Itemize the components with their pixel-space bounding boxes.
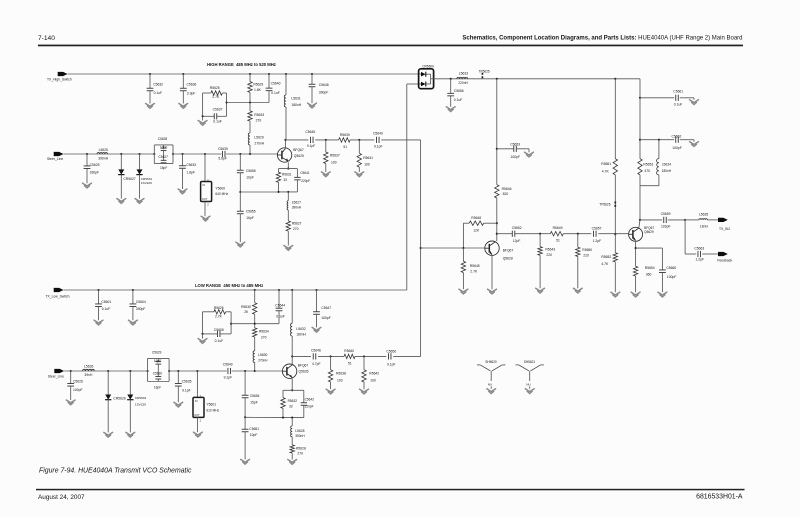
- svg-text:39nH: 39nH: [84, 373, 93, 377]
- wire C5651 node to low emitter network: [245, 416, 283, 418]
- transistor Q5629 BFQ67: [629, 227, 643, 241]
- svg-text:C5642: C5642: [305, 398, 315, 402]
- emitter network R5631 C5641 (high): [287, 162, 289, 168]
- capacitor C5648: [311, 73, 313, 75]
- capacitor C5601: [97, 289, 99, 291]
- svg-text:C5654: C5654: [250, 394, 260, 398]
- svg-text:390nH: 390nH: [292, 206, 302, 210]
- output TX_INJ: [718, 218, 728, 222]
- svg-text:9.1pF: 9.1pF: [387, 362, 396, 366]
- svg-text:TP5625: TP5625: [479, 69, 490, 73]
- resistor R5654: [633, 266, 637, 276]
- svg-text:1.8K: 1.8K: [254, 88, 262, 92]
- svg-text:610 MHz: 610 MHz: [206, 409, 219, 413]
- svg-text:100: 100: [364, 163, 370, 167]
- svg-text:C5655: C5655: [246, 210, 256, 214]
- svg-text:0.1uF: 0.1uF: [213, 120, 222, 124]
- inductor L5635 series: [684, 219, 686, 221]
- capacitor C5635: [177, 370, 179, 372]
- svg-text:16pF: 16pF: [246, 216, 254, 220]
- wire steer line high: [64, 153, 155, 155]
- svg-text:C5601: C5601: [101, 300, 111, 304]
- svg-text:C5637: C5637: [213, 107, 223, 111]
- varactor CR5628: [107, 370, 109, 372]
- svg-text:R5633: R5633: [254, 113, 264, 117]
- svg-text:9.1pF: 9.1pF: [307, 144, 316, 148]
- svg-text:C5650: C5650: [386, 350, 396, 354]
- svg-text:C5641: C5641: [300, 171, 310, 175]
- svg-text:C5626: C5626: [73, 379, 83, 383]
- svg-text:Q5626: Q5626: [299, 369, 309, 373]
- svg-text:C5648: C5648: [319, 83, 329, 87]
- junction L5629 to steer rail: [249, 153, 251, 155]
- svg-text:R5631: R5631: [282, 173, 292, 177]
- svg-text:270: 270: [297, 452, 303, 456]
- wire TX_High rail: [68, 73, 422, 75]
- svg-text:51: 51: [343, 145, 347, 149]
- resistor R5651: [613, 159, 617, 175]
- svg-text:L5633: L5633: [459, 72, 468, 76]
- svg-text:220pF: 220pF: [305, 405, 314, 409]
- inductor L5630: [253, 351, 255, 363]
- svg-text:C5644: C5644: [275, 303, 285, 307]
- svg-text:16pF: 16pF: [154, 385, 161, 389]
- svg-text:L5631: L5631: [291, 96, 300, 100]
- svg-text:9.1pF: 9.1pF: [374, 145, 383, 149]
- svg-text:180nH: 180nH: [662, 169, 672, 173]
- svg-text:2.7K: 2.7K: [470, 270, 478, 274]
- footer rule: [36, 489, 745, 491]
- svg-text:R5629: R5629: [253, 82, 263, 86]
- capacitor C5632: [149, 73, 151, 75]
- svg-text:C5627: C5627: [159, 155, 169, 159]
- svg-text:Y5600: Y5600: [215, 186, 225, 190]
- resistor R5639 series: [339, 138, 351, 142]
- svg-text:C5649: C5649: [373, 131, 383, 135]
- capacitor C5655: [239, 191, 241, 193]
- wire TX_Low vertical to CR5600: [406, 84, 408, 290]
- resistor R5648: [496, 222, 498, 224]
- svg-text:390nH: 390nH: [98, 157, 108, 161]
- svg-text:220nH: 220nH: [458, 81, 468, 85]
- resistor R5646: [495, 185, 499, 198]
- svg-text:Q5628: Q5628: [503, 256, 513, 260]
- svg-text:R5643: R5643: [545, 248, 555, 252]
- capacitor C5653: [496, 148, 498, 150]
- capacitor C5633: [181, 153, 183, 155]
- output Feedback: [718, 252, 728, 256]
- resistor R5626 with capacitor C5608 loop: [202, 312, 204, 334]
- svg-text:C5625: C5625: [90, 163, 100, 167]
- svg-text:C5632: C5632: [153, 82, 163, 86]
- svg-text:16pF: 16pF: [154, 359, 161, 363]
- svg-text:R5649: R5649: [553, 226, 563, 230]
- capacitor C5658: [239, 153, 241, 155]
- resistor R5630: [254, 289, 256, 291]
- svg-text:6816533H01-A: 6816533H01-A: [696, 494, 743, 501]
- svg-text:OUT: OUT: [202, 198, 208, 201]
- wire emitter Q5629: [635, 241, 637, 266]
- svg-text:470: 470: [644, 169, 650, 173]
- inductor L5625: [97, 152, 108, 154]
- svg-text:51: 51: [348, 362, 352, 366]
- svg-text:C5604: C5604: [136, 300, 146, 304]
- svg-text:CR5600: CR5600: [422, 64, 434, 68]
- svg-text:C5646: C5646: [311, 348, 321, 352]
- svg-text:L5625: L5625: [99, 148, 108, 152]
- capacitor C5626: [70, 370, 72, 372]
- svg-text:CR5627: CR5627: [123, 177, 135, 181]
- resistor R5650: [577, 233, 579, 235]
- svg-text:R5632: R5632: [288, 399, 298, 403]
- svg-text:Q5625: Q5625: [294, 154, 304, 158]
- svg-text:9.1pF: 9.1pF: [182, 388, 191, 392]
- svg-text:R5626: R5626: [214, 306, 224, 310]
- resistor R5653: [638, 159, 642, 175]
- test point TP5626: [614, 202, 616, 208]
- capacitor C5625: [86, 153, 88, 155]
- svg-text:R5627: R5627: [292, 221, 302, 225]
- wire buffer branch vertical: [496, 78, 498, 80]
- svg-text:C5640: C5640: [223, 363, 233, 367]
- svg-text:C5647: C5647: [321, 306, 331, 310]
- resistor R5642: [363, 355, 365, 357]
- capacitor C5644: [278, 289, 280, 291]
- capacitor C5604: [132, 289, 134, 291]
- varactor CR5631: [138, 153, 140, 155]
- svg-text:Schematics, Component Location: Schematics, Component Location Diagrams,…: [462, 36, 742, 42]
- resistor R5629: [249, 73, 251, 75]
- svg-text:100pF: 100pF: [321, 316, 330, 320]
- wire collector Q5625: [284, 140, 286, 149]
- svg-text:4.7K: 4.7K: [602, 169, 610, 173]
- svg-text:BFQ67: BFQ67: [293, 148, 304, 152]
- capacitor C5659: [639, 219, 641, 221]
- inductor L5629: [248, 133, 250, 145]
- capacitor C5629 / capacitor C5630 parallel pair: [147, 370, 149, 372]
- svg-text:R5639: R5639: [340, 133, 350, 137]
- svg-text:C5645: C5645: [305, 130, 315, 134]
- capacitor C5660: [661, 248, 663, 270]
- inductor L5634: [658, 139, 660, 141]
- resistor R5649 series: [550, 232, 563, 236]
- svg-text:R5651: R5651: [601, 162, 611, 166]
- svg-text:IN: IN: [195, 400, 198, 403]
- junction L5630 to steer rail: [254, 370, 256, 372]
- resistor R5640 series: [344, 354, 355, 358]
- svg-text:C5663: C5663: [694, 247, 704, 251]
- svg-text:1.2pF: 1.2pF: [696, 258, 705, 262]
- svg-text:R5634: R5634: [259, 330, 269, 334]
- inductor L5633 series: [457, 77, 468, 79]
- svg-text:51: 51: [556, 239, 560, 243]
- svg-text:12K: 12K: [473, 229, 480, 233]
- capacitor C5628 / capacitor C5627 parallel pair: [153, 153, 155, 155]
- svg-text:R5642: R5642: [369, 372, 379, 376]
- capacitor C5661: [639, 97, 641, 99]
- svg-text:C5639: C5639: [218, 147, 228, 151]
- svg-text:390pF: 390pF: [319, 90, 328, 94]
- inductor L5628: [291, 418, 293, 426]
- svg-text:NU: NU: [488, 382, 492, 386]
- svg-text:C5658: C5658: [246, 169, 256, 173]
- svg-text:C5657: C5657: [592, 226, 602, 230]
- capacitor C5640 low series: [227, 368, 229, 374]
- resistor R5633: [249, 101, 251, 103]
- svg-text:360: 360: [646, 273, 652, 277]
- inductor L5632: [291, 289, 293, 291]
- wire right supply branch: [614, 78, 616, 80]
- header rule: [38, 45, 743, 47]
- svg-text:1.2pF: 1.2pF: [593, 239, 602, 243]
- svg-text:TX_INJ: TX_INJ: [719, 227, 730, 231]
- svg-text:4.7K: 4.7K: [601, 262, 609, 266]
- svg-text:C5608: C5608: [214, 328, 224, 332]
- emitter network R5632 C5642 (low): [291, 379, 293, 391]
- resonator Y5600: [204, 153, 206, 155]
- capacitor C5663: [684, 220, 686, 254]
- svg-text:August 24, 2007: August 24, 2007: [38, 494, 85, 501]
- resonator Y5601: [196, 370, 198, 372]
- svg-text:0.1uF: 0.1uF: [454, 98, 463, 102]
- svg-text:L5628: L5628: [295, 429, 304, 433]
- svg-text:R5637: R5637: [330, 154, 340, 158]
- wire steer line low: [64, 370, 148, 372]
- resistor R5638: [330, 355, 332, 357]
- resistor R5641: [358, 139, 360, 141]
- svg-text:L5627: L5627: [292, 201, 301, 205]
- wire high-range output rail: [284, 139, 286, 141]
- wire base rail Q5629: [614, 233, 616, 235]
- capacitor C5656: [450, 78, 452, 80]
- wire low-range output rail: [291, 355, 293, 357]
- svg-text:C5630: C5630: [153, 372, 163, 376]
- svg-text:100pF: 100pF: [511, 155, 520, 159]
- svg-text:330pF: 330pF: [90, 170, 99, 174]
- svg-text:SH5621: SH5621: [524, 360, 536, 364]
- svg-text:IN: IN: [203, 184, 206, 187]
- svg-text:R5654: R5654: [645, 266, 655, 270]
- svg-text:12pF: 12pF: [513, 239, 521, 243]
- svg-text:100: 100: [370, 378, 376, 382]
- transistor Q5626 BFQ67: [282, 364, 296, 378]
- svg-text:R5641: R5641: [363, 156, 373, 160]
- svg-text:640 MHz: 640 MHz: [215, 192, 228, 196]
- wire high output to buffer base: [420, 140, 422, 248]
- resistor R5652: [614, 234, 616, 252]
- capacitor C5651: [244, 416, 246, 418]
- svg-text:2.7K: 2.7K: [212, 95, 220, 99]
- svg-text:180nH: 180nH: [296, 333, 306, 337]
- svg-text:2.7K: 2.7K: [215, 315, 223, 319]
- svg-text:L5632: L5632: [296, 327, 305, 331]
- svg-text:100: 100: [331, 160, 337, 164]
- svg-text:C5659: C5659: [661, 212, 671, 216]
- inductor L5631: [285, 73, 287, 75]
- capacitor C5649 series: [376, 137, 378, 143]
- resistor R5627: [286, 221, 290, 231]
- svg-text:L5635: L5635: [699, 213, 708, 217]
- svg-text:220: 220: [546, 253, 552, 257]
- svg-text:L5634: L5634: [662, 162, 671, 166]
- inductor L5627: [287, 192, 289, 201]
- svg-text:SH5620: SH5620: [485, 360, 497, 364]
- svg-text:0.1uF: 0.1uF: [154, 91, 163, 95]
- svg-text:270: 270: [293, 227, 299, 231]
- input Steer_Line (low): [54, 369, 64, 373]
- svg-text:0.1uF: 0.1uF: [215, 339, 224, 343]
- svg-text:270: 270: [256, 119, 262, 123]
- svg-text:10pF: 10pF: [246, 176, 254, 180]
- svg-text:R5653: R5653: [643, 162, 653, 166]
- svg-text:270nH: 270nH: [258, 358, 268, 362]
- svg-text:C5635: C5635: [182, 380, 192, 384]
- varactor CR5627: [120, 153, 122, 155]
- svg-text:C5661: C5661: [673, 89, 683, 93]
- svg-text:BFQ67: BFQ67: [298, 363, 309, 367]
- wire R5626 loop to low bias node: [231, 323, 279, 325]
- capacitor C5654: [244, 370, 246, 372]
- svg-text:100: 100: [337, 378, 343, 382]
- svg-text:CR5628: CR5628: [113, 396, 125, 400]
- capacitor C5657 series: [593, 231, 595, 237]
- svg-text:NU: NU: [526, 382, 530, 386]
- wire interstage rail: [540, 233, 550, 235]
- svg-text:5.6pF: 5.6pF: [218, 156, 227, 160]
- diode pair CR5600: [419, 69, 434, 89]
- svg-text:15pF: 15pF: [250, 400, 258, 404]
- resistor R5637: [325, 139, 327, 141]
- wire base rail Q5628: [420, 247, 422, 249]
- svg-text:33: 33: [289, 405, 293, 409]
- svg-text:C5660: C5660: [666, 266, 676, 270]
- svg-text:390nH: 390nH: [295, 434, 305, 438]
- svg-text:R5640: R5640: [344, 349, 354, 353]
- svg-text:1SV229: 1SV229: [141, 181, 152, 185]
- svg-text:R5625: R5625: [210, 86, 220, 90]
- resistor R5625 with capacitor C5637 loop: [202, 93, 204, 116]
- svg-text:Feedback: Feedback: [717, 259, 732, 263]
- svg-text:C5628: C5628: [158, 137, 168, 141]
- svg-text:33: 33: [283, 178, 287, 182]
- svg-text:0.1uF: 0.1uF: [271, 91, 280, 95]
- svg-text:18nH: 18nH: [700, 225, 709, 229]
- svg-text:180nH: 180nH: [291, 103, 301, 107]
- svg-text:R5645: R5645: [470, 264, 480, 268]
- svg-text:C5652: C5652: [512, 226, 522, 230]
- inductor L5626: [83, 369, 95, 371]
- svg-text:100pF: 100pF: [73, 388, 82, 392]
- resistor R5634: [254, 323, 256, 325]
- svg-text:220: 220: [583, 253, 589, 257]
- test point TP5625: [481, 73, 483, 79]
- svg-text:R5628: R5628: [296, 446, 306, 450]
- svg-text:Steer_Line: Steer_Line: [48, 375, 64, 379]
- capacitor C5662: [639, 139, 641, 141]
- svg-text:LOW RANGE 450 MHz to 485 MHz: LOW RANGE 450 MHz to 485 MHz: [195, 283, 263, 288]
- svg-text:Q5629: Q5629: [644, 230, 654, 234]
- wire collector Q5629: [639, 220, 640, 228]
- svg-text:C5662: C5662: [672, 134, 682, 138]
- svg-text:4.7pF: 4.7pF: [312, 362, 321, 366]
- svg-text:OUT: OUT: [194, 414, 200, 417]
- svg-text:R5650: R5650: [582, 248, 592, 252]
- svg-text:1SV229: 1SV229: [135, 402, 146, 406]
- svg-text:100pF: 100pF: [667, 275, 676, 279]
- wire supply corner to collector loads: [639, 79, 641, 159]
- svg-text:R5648: R5648: [471, 216, 481, 220]
- svg-text:C5651: C5651: [249, 427, 259, 431]
- svg-text:R5646: R5646: [502, 187, 512, 191]
- svg-text:TX_Low_Switch: TX_Low_Switch: [46, 294, 70, 298]
- wire R5625 loop to bias node: [227, 102, 270, 104]
- svg-text:820: 820: [503, 192, 509, 196]
- svg-text:15pF: 15pF: [160, 166, 167, 170]
- input TX_High_Switch: [58, 72, 68, 76]
- svg-text:HIGH RANGE 485 MHz to 520 MHz: HIGH RANGE 485 MHz to 520 MHz: [207, 62, 276, 67]
- svg-text:0.1uF: 0.1uF: [674, 102, 683, 106]
- resistor R5645: [462, 247, 464, 249]
- svg-text:9.1pF: 9.1pF: [224, 375, 233, 379]
- wire mid supply rail: [434, 78, 640, 80]
- svg-text:10pF: 10pF: [160, 145, 167, 149]
- svg-text:100pF: 100pF: [672, 146, 681, 150]
- svg-text:C5656: C5656: [454, 89, 464, 93]
- resistor R5643: [539, 233, 541, 235]
- svg-text:C5653: C5653: [510, 143, 520, 147]
- svg-text:Steer_Line: Steer_Line: [47, 157, 63, 161]
- svg-text:R5630: R5630: [241, 305, 251, 309]
- svg-text:220pF: 220pF: [301, 179, 310, 183]
- resistor R5628: [290, 445, 294, 453]
- wire emitter Q5628 to ground: [491, 256, 493, 290]
- svg-text:BFQ67: BFQ67: [503, 249, 514, 253]
- capacitor C5645 series: [310, 137, 312, 143]
- capacitor C5646 series: [312, 353, 314, 359]
- varactor CR5632: [129, 370, 131, 372]
- wire C5655 node to emitter network: [240, 191, 278, 193]
- svg-text:TX_High_Switch: TX_High_Switch: [47, 77, 72, 81]
- svg-text:L5630: L5630: [258, 353, 267, 357]
- svg-text:7-140: 7-140: [38, 35, 55, 42]
- capacitor C5650 series: [387, 353, 389, 359]
- wire low output rises to buffer base: [420, 248, 422, 356]
- capacitor C5647: [315, 289, 317, 291]
- wire collector load join: [640, 185, 659, 187]
- input Steer_Line (high): [54, 152, 64, 156]
- svg-text:270nH: 270nH: [254, 141, 264, 145]
- svg-text:270: 270: [261, 335, 267, 339]
- svg-text:L5629: L5629: [254, 136, 263, 140]
- svg-text:C5633: C5633: [186, 163, 196, 167]
- transistor Q5625 BFQ67: [277, 148, 291, 162]
- svg-text:10pF: 10pF: [250, 433, 258, 437]
- transistor Q5628 BFQ67: [485, 241, 499, 255]
- svg-text:1.8pF: 1.8pF: [186, 171, 195, 175]
- svg-text:L5626: L5626: [84, 364, 93, 368]
- svg-text:C5640: C5640: [271, 81, 281, 85]
- svg-text:CR5632: CR5632: [135, 396, 147, 400]
- svg-text:Figure 7-94. HUE4040A Transmit: Figure 7-94. HUE4040A Transmit VCO Schem…: [39, 468, 192, 475]
- capacitor C5639 series: [222, 151, 224, 157]
- svg-text:R5652: R5652: [601, 255, 611, 259]
- input TX_Low_Switch: [54, 288, 64, 292]
- svg-text:0.1uF: 0.1uF: [102, 307, 111, 311]
- svg-text:Y5601: Y5601: [206, 403, 216, 407]
- svg-text:100pF: 100pF: [661, 224, 670, 228]
- svg-text:0.1uF: 0.1uF: [276, 315, 285, 319]
- wire collector Q5626: [291, 356, 293, 364]
